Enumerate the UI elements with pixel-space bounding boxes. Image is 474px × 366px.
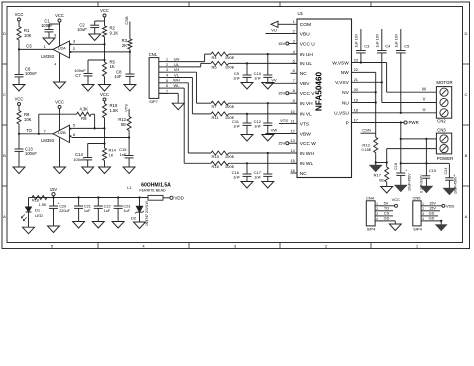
svg-text:LED: LED	[35, 213, 43, 218]
node	[138, 196, 140, 198]
svg-text:IN VL: IN VL	[300, 112, 312, 118]
U1 pin 16 NC	[291, 172, 298, 174]
CN4 pin4 wire GD	[379, 220, 395, 222]
svg-text:1K: 1K	[109, 152, 114, 157]
node	[375, 91, 377, 93]
svg-text:SIP4: SIP4	[367, 227, 376, 232]
resistor R2 9.1K	[103, 26, 107, 37]
svg-text:VCC: VCC	[100, 92, 109, 97]
pin 5 wire	[72, 127, 105, 129]
svg-text:VCC W: VCC W	[300, 141, 316, 147]
svg-text:GD: GD	[429, 217, 435, 221]
svg-text:0E: 0E	[379, 178, 384, 183]
ground	[89, 34, 101, 41]
wire N bus	[375, 72, 377, 137]
svg-text:IN UH: IN UH	[300, 52, 314, 58]
svg-text:LM393: LM393	[41, 138, 54, 143]
ground	[241, 135, 253, 142]
svg-text:13: 13	[290, 138, 294, 143]
node (pin6/R12/C15)	[128, 136, 130, 138]
svg-text:10uF/450V: 10uF/450V	[453, 176, 457, 194]
wire	[18, 134, 20, 149]
node CS (comparator output)	[18, 48, 20, 50]
ground	[92, 222, 104, 229]
svg-text:R9: R9	[81, 116, 87, 121]
node	[267, 152, 269, 154]
wire net WH	[169, 82, 189, 84]
wire net UL	[169, 66, 201, 68]
wire	[267, 103, 269, 123]
node	[94, 127, 96, 129]
svg-text:CSB: CSB	[124, 16, 129, 25]
resistor R11 100E	[211, 112, 229, 116]
svg-text:2: 2	[166, 63, 168, 67]
U1 pin 1 COM	[291, 23, 298, 25]
svg-text:2: 2	[422, 207, 424, 211]
wire	[104, 161, 106, 168]
svg-text:VCC: VCC	[15, 96, 24, 101]
svg-text:1uF 16V: 1uF 16V	[395, 33, 399, 47]
capacitor C18 10uF/450V	[396, 172, 405, 174]
svg-text:P: P	[346, 120, 349, 126]
wire	[246, 125, 248, 134]
wire	[448, 180, 450, 188]
svg-text:R6: R6	[212, 64, 218, 69]
ground	[43, 38, 55, 45]
wire	[28, 212, 30, 227]
wire	[128, 138, 130, 156]
resistor R18 1.5K	[32, 196, 47, 200]
svg-text:CN4: CN4	[366, 195, 375, 200]
capacitor C6 100nF	[15, 74, 24, 76]
svg-text:CN2: CN2	[437, 118, 446, 123]
capacitor C5 1uF 16V (bootstrap)	[400, 29, 402, 51]
svg-text:W,VSW: W,VSW	[332, 60, 349, 66]
svg-text:IN UL: IN UL	[300, 61, 313, 67]
svg-text:VBV: VBV	[300, 81, 310, 87]
ground	[13, 167, 25, 174]
svg-text:VL: VL	[174, 72, 180, 77]
wire	[229, 62, 297, 64]
svg-text:CS: CS	[26, 44, 32, 49]
svg-text:100nF: 100nF	[41, 23, 53, 28]
svg-text:IN VH: IN VH	[300, 101, 313, 107]
resistor R17 0E	[385, 167, 389, 182]
wire	[129, 76, 131, 84]
wire	[246, 77, 248, 82]
wire (feedback to R9)	[38, 114, 40, 134]
svg-text:PWR: PWR	[409, 120, 419, 125]
wire	[376, 162, 387, 164]
resistor R15 100E	[211, 151, 229, 155]
ground (power)	[435, 225, 447, 232]
wire (bus cap rail)	[401, 162, 450, 164]
wire V,VSV row	[358, 81, 382, 83]
svg-text:2K: 2K	[122, 43, 127, 48]
svg-text:NV: NV	[342, 90, 349, 96]
wire	[97, 208, 99, 221]
wire	[104, 128, 106, 148]
wire (to CN3+)	[401, 138, 437, 140]
wire	[400, 53, 402, 113]
svg-text:NU: NU	[342, 100, 349, 106]
wire net VH	[169, 71, 197, 73]
resistor R12 0E	[127, 117, 131, 131]
terminal VDD (CN5)	[442, 204, 445, 207]
svg-text:C3: C3	[364, 44, 370, 49]
svg-text:VTS: VTS	[123, 104, 128, 112]
wire	[104, 118, 106, 129]
wire	[386, 182, 388, 187]
COM arrow (pin1)	[278, 23, 291, 25]
node	[400, 121, 402, 123]
svg-text:22: 22	[354, 67, 358, 72]
wire	[267, 77, 269, 82]
ground	[262, 83, 274, 90]
svg-text:CS: CS	[384, 212, 390, 216]
svg-text:R4: R4	[212, 55, 218, 60]
wire	[18, 40, 20, 49]
node	[103, 127, 105, 129]
svg-text:D: D	[3, 31, 6, 36]
op-amp U2A LM393	[53, 41, 70, 58]
svg-text:POWER: POWER	[437, 156, 454, 161]
svg-text:1nF: 1nF	[254, 174, 261, 179]
LED D1	[26, 207, 32, 212]
CN5 pin3 wire GD	[425, 215, 438, 217]
resistor R5 1K	[103, 62, 107, 77]
wire	[400, 175, 402, 185]
svg-text:100nF: 100nF	[25, 151, 37, 156]
wire	[128, 158, 130, 167]
svg-text:15V: 15V	[278, 91, 285, 96]
svg-text:C: C	[3, 92, 6, 97]
wire net VL	[169, 77, 193, 79]
svg-text:R15: R15	[212, 154, 220, 159]
CN5 pin 3	[421, 215, 425, 217]
node	[386, 161, 388, 163]
wire	[229, 162, 297, 164]
wire	[19, 48, 53, 50]
resistor R13 0.15E	[374, 137, 378, 152]
wire net WL	[169, 87, 185, 89]
svg-text:10uF: 10uF	[77, 27, 87, 32]
svg-text:VV: VV	[271, 77, 277, 82]
node	[246, 113, 248, 115]
svg-text:6: 6	[166, 84, 168, 88]
svg-text:C7: C7	[75, 73, 81, 78]
svg-text:L1: L1	[127, 185, 132, 190]
wire	[48, 32, 50, 38]
U1 pin 5 IN UL	[291, 62, 298, 64]
wire	[53, 198, 55, 207]
ground	[23, 227, 35, 234]
svg-text:LM393: LM393	[41, 54, 54, 59]
U1 pin 10 IN VL	[291, 113, 298, 115]
svg-text:3: 3	[293, 38, 295, 43]
resistor R4 100E	[211, 52, 229, 56]
svg-text:WH: WH	[173, 78, 180, 83]
svg-text:CN1: CN1	[149, 52, 158, 57]
svg-text:100E: 100E	[225, 64, 235, 69]
svg-text:VTS: VTS	[280, 118, 288, 123]
CN1 pin 7 stub	[159, 92, 169, 94]
node TO (comparator output)	[18, 133, 20, 135]
U1 pin 2 VBU	[291, 33, 298, 35]
svg-text:C4: C4	[385, 44, 391, 49]
svg-text:16: 16	[290, 168, 294, 173]
svg-text:1uF 16V: 1uF 16V	[355, 33, 359, 47]
U1 pin 20 NV	[352, 91, 359, 93]
node	[103, 142, 105, 144]
svg-text:1: 1	[293, 19, 295, 24]
CN5 pin 1	[421, 205, 425, 207]
capacitor C22 1uF	[94, 205, 103, 207]
wire	[59, 22, 61, 46]
wire (C7 branch)	[88, 59, 105, 61]
svg-text:4: 4	[376, 217, 378, 221]
wire (U2B V- to gnd)	[59, 138, 61, 167]
wire	[267, 153, 269, 174]
svg-text:5V: 5V	[384, 201, 389, 205]
ground	[241, 83, 253, 90]
svg-text:U,VSU: U,VSU	[334, 111, 349, 117]
svg-text:17: 17	[354, 117, 358, 122]
svg-text:11: 11	[291, 118, 295, 123]
wire	[18, 21, 20, 27]
ground (power)	[420, 186, 433, 193]
wire	[18, 49, 20, 74]
node	[97, 196, 99, 198]
ground	[99, 167, 111, 174]
capacitor C23 1uF	[114, 205, 123, 207]
svg-text:1nF: 1nF	[233, 123, 240, 128]
svg-text:COM: COM	[300, 22, 311, 28]
svg-text:100E: 100E	[225, 164, 235, 169]
svg-text:U2A: U2A	[58, 46, 66, 51]
svg-text:2: 2	[376, 207, 378, 211]
svg-text:1nF: 1nF	[233, 75, 240, 80]
svg-text:1nF: 1nF	[114, 74, 122, 79]
wire NW row	[358, 71, 376, 73]
resistor R16 100E	[211, 161, 229, 165]
net label VTS (pin11)	[279, 123, 291, 125]
U1 pin 13 VCC W	[291, 142, 298, 144]
wire	[117, 198, 119, 207]
U1 pin 11 VTS	[291, 123, 298, 125]
svg-text:+: +	[405, 169, 407, 173]
ground	[389, 224, 401, 231]
wire	[87, 160, 89, 167]
node	[267, 102, 269, 104]
net label VW (pin12)	[266, 133, 291, 135]
capacitor C4 1uF 16V (bootstrap)	[381, 29, 383, 51]
ground	[73, 222, 85, 229]
svg-text:VBU: VBU	[300, 31, 310, 37]
svg-text:5: 5	[293, 58, 295, 63]
svg-text:18: 18	[354, 108, 358, 113]
svg-text:12: 12	[290, 128, 294, 133]
svg-text:4.3K: 4.3K	[79, 106, 88, 111]
terminal 15V (pin8)	[286, 92, 289, 95]
capacitor C20 220uF	[49, 205, 58, 207]
svg-text:NC: NC	[300, 71, 307, 77]
wire (C14 branch)	[88, 143, 105, 145]
svg-text:1nF: 1nF	[233, 174, 240, 179]
svg-text:R7: R7	[212, 104, 218, 109]
svg-text:VCC: VCC	[392, 197, 401, 202]
svg-text:FERRITE BEAD: FERRITE BEAD	[139, 189, 166, 193]
CN4 pin1 wire 5V	[379, 205, 394, 207]
wire	[246, 176, 248, 181]
wire	[139, 212, 141, 222]
wire	[246, 63, 248, 75]
svg-text:100E: 100E	[225, 55, 235, 60]
svg-text:7: 7	[166, 89, 168, 93]
pin 2 wire	[72, 51, 130, 53]
node	[375, 161, 377, 163]
wire	[360, 53, 362, 63]
wire	[129, 49, 131, 52]
node	[267, 53, 269, 55]
svg-text:19: 19	[354, 97, 358, 102]
svg-text:MOTOR: MOTOR	[436, 80, 452, 85]
resistor R8 10K	[17, 111, 21, 125]
resistor R10 1.5K	[103, 104, 107, 118]
svg-text:15V: 15V	[429, 201, 436, 205]
node	[78, 196, 80, 198]
wire	[425, 178, 427, 186]
capacitor C3 1uF 16V (bootstrap)	[360, 29, 362, 51]
svg-text:R16: R16	[212, 164, 220, 169]
svg-text:IN WH: IN WH	[300, 151, 315, 157]
svg-text:C24: C24	[444, 168, 448, 175]
ground	[54, 82, 66, 89]
svg-text:R13: R13	[362, 142, 370, 147]
svg-text:D1: D1	[35, 208, 41, 213]
CN5 pin 2	[421, 210, 425, 212]
net label VU (pin2)	[266, 33, 291, 35]
svg-text:C18: C18	[394, 163, 398, 170]
wire	[91, 113, 94, 115]
wire	[87, 76, 89, 85]
svg-text:VDD: VDD	[175, 195, 184, 200]
ground	[124, 85, 136, 92]
wire	[97, 198, 99, 207]
svg-text:21: 21	[354, 77, 358, 82]
svg-text:D: D	[465, 31, 468, 36]
svg-text:8: 8	[293, 88, 295, 93]
node	[360, 61, 362, 63]
svg-text:C19: C19	[429, 169, 436, 173]
U1 pin 6 NC	[291, 72, 298, 74]
node	[400, 138, 402, 140]
capacitor C24 10uF/450V	[445, 177, 453, 179]
wire	[78, 198, 80, 207]
svg-text:VCC: VCC	[100, 8, 109, 13]
svg-text:V,VSV: V,VSV	[335, 80, 349, 86]
node	[381, 81, 383, 83]
svg-text:VW: VW	[271, 128, 278, 133]
wire	[78, 208, 80, 221]
U1 pin 18 U,VSU	[352, 112, 359, 114]
U1 pin 17 P	[352, 122, 359, 124]
node	[440, 220, 442, 222]
ground	[262, 182, 274, 189]
wire	[229, 152, 297, 154]
svg-text:23: 23	[354, 57, 358, 62]
U1 pin 9 IN VH	[291, 102, 298, 104]
node	[375, 101, 377, 103]
wire	[229, 113, 297, 115]
svg-text:100nF: 100nF	[25, 71, 37, 76]
wire (W down)	[386, 63, 388, 93]
wire	[18, 151, 20, 167]
svg-text:8: 8	[55, 34, 57, 38]
node	[425, 138, 427, 140]
svg-text:1: 1	[376, 202, 378, 206]
svg-text:1.5K: 1.5K	[110, 108, 119, 113]
CN4 pin 2	[375, 210, 379, 212]
svg-text:1uF: 1uF	[104, 209, 111, 213]
svg-text:2: 2	[293, 28, 295, 33]
svg-text:V: V	[423, 97, 426, 102]
wire P row	[358, 122, 404, 124]
svg-text:GD: GD	[429, 212, 435, 216]
wire	[229, 53, 297, 55]
wire	[18, 106, 20, 111]
node	[117, 196, 119, 198]
ground	[99, 85, 111, 92]
CN4 pin 1	[375, 205, 379, 207]
svg-text:A: A	[465, 214, 468, 219]
wire	[129, 52, 131, 74]
terminal 15V (pin3)	[286, 42, 289, 45]
ground	[123, 167, 135, 174]
terminal PWR	[404, 121, 407, 124]
capacitor C19 0.1uF/630V	[423, 175, 431, 177]
resistor R9 4.3K	[77, 112, 92, 116]
wire	[18, 124, 20, 134]
svg-text:1: 1	[166, 58, 168, 62]
wire 15V rail	[31, 197, 47, 199]
CN5 pin4 wire GD	[425, 220, 441, 222]
wire net UH	[169, 61, 205, 63]
svg-text:B: B	[3, 153, 6, 158]
ground	[262, 135, 274, 142]
wire	[267, 54, 269, 75]
pin 6 wire	[72, 137, 130, 139]
node	[103, 59, 105, 61]
wire (V down)	[381, 82, 383, 102]
wire (U2A V- to gnd)	[59, 53, 61, 82]
CN1 pin 6 stub	[159, 87, 169, 89]
resistor R3 2K	[128, 39, 132, 49]
wire	[128, 131, 130, 138]
svg-text:VCC: VCC	[15, 12, 24, 17]
wire	[18, 77, 20, 85]
svg-text:9: 9	[293, 98, 295, 103]
terminal VDD	[170, 196, 173, 199]
node (pin2/R3/C8)	[129, 51, 131, 53]
svg-text:VCC V: VCC V	[300, 91, 315, 97]
node	[246, 62, 248, 64]
svg-text:15V: 15V	[278, 141, 285, 146]
svg-text:1uF 16V: 1uF 16V	[376, 33, 380, 47]
wire	[229, 102, 297, 104]
U1 pin 22 NW	[352, 71, 359, 73]
svg-text:100E: 100E	[225, 154, 235, 159]
